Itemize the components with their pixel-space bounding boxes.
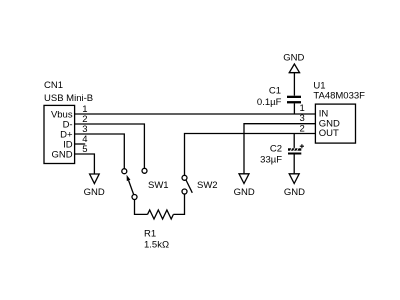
- svg-text:TA48M033F: TA48M033F: [313, 90, 365, 101]
- svg-text:CN1: CN1: [44, 80, 63, 91]
- svg-text:C2: C2: [270, 144, 282, 155]
- svg-text:GND: GND: [234, 187, 255, 198]
- svg-text:1.5kΩ: 1.5kΩ: [144, 240, 169, 251]
- svg-text:SW2: SW2: [197, 180, 218, 191]
- svg-text:C1: C1: [269, 86, 281, 97]
- svg-text:R1: R1: [144, 228, 156, 239]
- svg-text:3: 3: [300, 113, 305, 124]
- svg-text:GND: GND: [283, 53, 304, 64]
- svg-text:GND: GND: [84, 187, 105, 198]
- svg-text:USB Mini-B: USB Mini-B: [44, 93, 93, 104]
- svg-text:2: 2: [300, 124, 305, 135]
- svg-text:0.1µF: 0.1µF: [257, 97, 282, 108]
- svg-text:OUT: OUT: [319, 128, 339, 139]
- svg-text:GND: GND: [51, 150, 72, 161]
- svg-text:GND: GND: [284, 187, 305, 198]
- svg-text:33µF: 33µF: [260, 155, 282, 166]
- svg-text:SW1: SW1: [148, 180, 169, 191]
